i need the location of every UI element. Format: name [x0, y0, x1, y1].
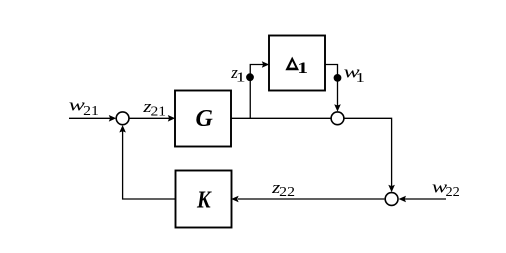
block K: [176, 171, 232, 228]
arrowhead into S3 top: [388, 185, 395, 192]
label z21: [142, 97, 166, 119]
summing junction S1: [116, 112, 129, 125]
node w1 dot: [334, 74, 342, 82]
label z22: [271, 178, 295, 200]
label z1: [230, 63, 245, 85]
svg-text:G: G: [196, 106, 214, 132]
label Delta1 value: [285, 57, 308, 78]
wire G output to S2: [231, 117, 331, 119]
wire S2 output right and down to S3: [344, 118, 392, 186]
wire Delta1 output to w1 node and down to S2: [325, 65, 338, 106]
node z1 dot: [246, 73, 254, 81]
block Delta1: [269, 36, 325, 91]
wire w22 input: [405, 198, 447, 200]
block G: [175, 91, 231, 147]
svg-text:K: K: [196, 186, 212, 213]
wire w21 input: [69, 117, 110, 119]
wire K output feedback to S1: [123, 131, 176, 199]
arrowhead into S1: [109, 115, 116, 122]
label w1: [344, 63, 365, 86]
arrowhead into K right side: [231, 196, 238, 203]
svg-text:1: 1: [297, 60, 308, 77]
arrowhead into Delta1: [262, 61, 269, 68]
summing junction S2: [331, 112, 344, 125]
wire z1 tap vertical and into Delta1: [250, 65, 264, 119]
arrowhead into S1 bottom: [119, 125, 126, 132]
svg-text:22: 22: [446, 185, 460, 200]
arrowhead into S3 right: [399, 196, 406, 203]
svg-text:21: 21: [151, 105, 167, 120]
svg-text:21: 21: [83, 104, 99, 119]
wire S3 output to K: [238, 198, 384, 200]
svg-text:22: 22: [279, 185, 295, 200]
svg-text:1: 1: [236, 69, 246, 85]
arrowhead into G: [168, 115, 175, 122]
label w21: [69, 96, 99, 119]
summing junction S3: [385, 193, 398, 206]
label w22: [432, 178, 460, 200]
wire S1 to G: [129, 117, 169, 119]
arrowhead into S2 top: [334, 104, 341, 111]
svg-text:1: 1: [356, 69, 365, 85]
